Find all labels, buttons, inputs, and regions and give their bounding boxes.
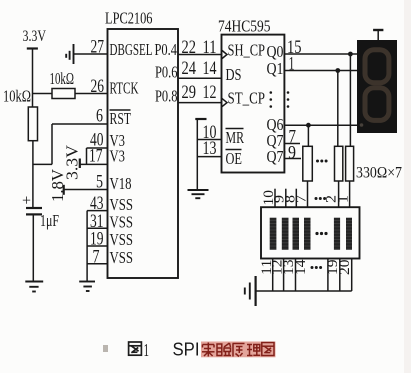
wire connector pin13 stub (295, 259, 297, 292)
power 1.8V bar rotated (pin5) (63, 185, 65, 195)
wire pin40 V3 (87, 147, 108, 149)
svg-text:7: 7 (293, 194, 309, 203)
connector hatched pin 1 (270, 218, 277, 250)
ellipsis dots inside 595 (270, 91, 290, 108)
display DS1 decimal point (360, 123, 364, 127)
wire pin17 V3 (80, 163, 108, 165)
svg-text:DBGSEL: DBGSEL (110, 40, 153, 59)
caption glyph 图 (black) (129, 342, 142, 355)
caption red glyph 原 (233, 344, 245, 357)
resistor R1 10k vertical (28, 107, 37, 141)
wire connector pin12 stub (283, 259, 285, 292)
svg-text:DS: DS (226, 65, 242, 84)
ellipsis bottom pin row (311, 266, 323, 269)
svg-text:7: 7 (93, 246, 100, 267)
wire display VCC stub (377, 30, 379, 40)
wire R2 left lead (33, 93, 52, 95)
svg-text:VSS: VSS (110, 230, 134, 249)
wire rail to capacitor (32, 141, 34, 207)
connector hatched pin 3 (293, 218, 300, 250)
svg-text:SPI: SPI (173, 340, 200, 360)
svg-text:SH_CP: SH_CP (228, 41, 266, 60)
ellipsis top pin row (315, 197, 327, 200)
svg-text:24: 24 (182, 58, 197, 79)
svg-text:VSS: VSS (110, 213, 134, 232)
wire pin10 MR (197, 139, 221, 141)
svg-text:3.3V: 3.3V (23, 28, 47, 45)
resistor R4 330ohm (335, 146, 343, 181)
caption red glyph 理 (247, 345, 260, 356)
wire Q7' pin9 stub (284, 158, 301, 160)
wire RST branch vertical (51, 124, 53, 164)
svg-text:V18: V18 (110, 174, 132, 193)
wire connector pin20 stub (339, 259, 341, 292)
resistor R3 330ohm (303, 146, 313, 181)
svg-text:Q7': Q7' (267, 147, 287, 166)
wire connector pin9 stub (285, 189, 287, 208)
capacitor C1 plate bottom (26, 213, 42, 215)
svg-text:14: 14 (293, 259, 309, 275)
svg-text:13: 13 (203, 138, 217, 159)
display DS1 digit 8 top loop (365, 50, 389, 83)
junction dot Q1 (335, 68, 340, 73)
wire 3.3V rail upper (32, 49, 34, 108)
wire pin7 VSS (87, 263, 107, 265)
svg-text:1: 1 (144, 340, 150, 360)
svg-text:9: 9 (288, 142, 296, 163)
svg-text:LPC2106: LPC2106 (105, 8, 153, 27)
svg-text:27: 27 (91, 36, 105, 57)
wire R5 to connector pin1 (349, 181, 351, 207)
svg-text:5: 5 (96, 172, 103, 193)
svg-text:VSS: VSS (110, 195, 134, 214)
svg-text:17: 17 (89, 145, 103, 166)
wire pin43 VSS (87, 210, 107, 212)
ground G3 VSS (79, 281, 95, 283)
wire pin19 VSS (87, 245, 107, 247)
connector J1 body (261, 207, 360, 258)
clock triangle ST_CP (222, 98, 228, 107)
wire R3 to connector pin7 (307, 181, 309, 207)
svg-text:1.8V: 1.8V (48, 168, 67, 202)
wire connector pin20b stub (351, 259, 353, 292)
svg-text:10kΩ: 10kΩ (50, 69, 75, 88)
ground G2 below C1 (25, 281, 43, 283)
capacitor C1 plate top (26, 207, 42, 209)
power +3.3V bar top (27, 47, 38, 49)
wire pin31 VSS (87, 227, 107, 229)
ellipsis between 330 resistors (316, 160, 328, 163)
ellipsis inside connector (315, 232, 327, 235)
svg-text:P0.6: P0.6 (155, 63, 178, 82)
wire Q6 to display (284, 124, 357, 126)
IC U2 74HC595 body (222, 35, 285, 173)
wire cap to ground (32, 215, 34, 281)
wire P0.6 pin24 to DS pin14 (178, 77, 222, 79)
ground G1 (rotated left, DBGSEL) (73, 44, 75, 64)
wire Q6 drop to R3 (307, 125, 309, 146)
svg-text:26: 26 (91, 76, 105, 97)
connector hatched pin 4 (304, 218, 311, 250)
svg-text:20: 20 (337, 260, 353, 276)
svg-text:1: 1 (289, 54, 295, 75)
wire connector pin10 stub (274, 189, 276, 208)
svg-text:10kΩ: 10kΩ (3, 87, 31, 106)
svg-text:22: 22 (182, 37, 197, 58)
junction dot Q0 (348, 52, 353, 57)
svg-text:V3: V3 (110, 146, 126, 165)
wire connector pin19 stub (327, 259, 329, 292)
svg-text:+: + (22, 193, 31, 210)
junction dot Q6 (306, 123, 311, 128)
caption red glyph 图 (262, 343, 274, 356)
wire Q1 pin1 to display (284, 70, 357, 72)
wire R4 to connector pin2 (338, 181, 340, 207)
resistor R2 10k horizontal (52, 89, 75, 99)
wire Q7 pin7 stub (284, 143, 300, 145)
wire bottom ground rail (256, 290, 352, 292)
svg-text:29: 29 (182, 82, 197, 103)
wire pin13 OE (197, 156, 221, 158)
wire V3 box left vertical (86, 148, 88, 164)
clock triangle SH_CP (222, 50, 228, 59)
wire Q0 drop to R5 (349, 54, 351, 146)
wire MR pullup vertical (196, 119, 198, 190)
display DS1 digit 8 bottom loop (365, 88, 389, 121)
caption red glyph 实 (202, 343, 215, 357)
wire RST branch horizontal (33, 163, 52, 165)
caption red glyph 验 (217, 343, 231, 356)
power 3.3V bar rotated (pin17) (79, 159, 81, 169)
wire P0.8 pin29 to ST_CP pin12 (178, 102, 222, 104)
wire pin6 RST (52, 123, 108, 125)
connector hatched pin 5 (334, 218, 340, 250)
wire P0.4 pin22 to SH_CP pin11 (178, 54, 222, 56)
svg-text:14: 14 (203, 58, 217, 79)
wire pin27 DBGSEL (74, 53, 108, 55)
caption stray mark (103, 345, 108, 352)
wire Q0 pin15 to display (284, 53, 357, 55)
svg-text:1: 1 (335, 195, 351, 203)
svg-text:ST_CP: ST_CP (228, 89, 266, 108)
svg-text:P0.8: P0.8 (155, 86, 178, 105)
ground G5 rotated left (bottom rail) (255, 276, 257, 306)
wire VSS ground bus (86, 211, 88, 282)
overline OE (226, 149, 242, 151)
wire connector pin8 stub (295, 189, 297, 208)
overline RST (110, 109, 131, 111)
ground G4 OE (188, 189, 209, 191)
svg-text:MR: MR (226, 128, 245, 147)
display DS1 body (357, 40, 397, 133)
svg-text:74HC595: 74HC595 (218, 16, 271, 35)
svg-text:VSS: VSS (110, 248, 134, 267)
svg-text:11: 11 (203, 37, 217, 58)
svg-text:OE: OE (226, 149, 243, 168)
caption red highlight block (201, 342, 276, 358)
svg-text:12: 12 (203, 82, 217, 103)
svg-text:1μF: 1μF (40, 211, 59, 230)
svg-text:RST: RST (110, 109, 132, 128)
connector hatched pin 2 (282, 218, 289, 250)
svg-text:330Ω×7: 330Ω×7 (356, 165, 402, 182)
resistor R5 330ohm (346, 146, 354, 181)
svg-text:P0.4: P0.4 (155, 40, 178, 59)
svg-text:RTCK: RTCK (110, 79, 139, 98)
wire Q1 drop to R4 (337, 71, 339, 147)
svg-text:Q1: Q1 (267, 59, 284, 78)
wire pin5 V18 (64, 189, 108, 191)
power VCC bar (MR pullup) (195, 118, 206, 120)
connector hatched pin 6 (346, 218, 352, 250)
power VCC bar (display) (373, 29, 383, 31)
wire connector pin11 stub (272, 259, 274, 292)
IC U1 LPC2106 body (108, 29, 179, 278)
svg-text:6: 6 (96, 106, 103, 127)
wire pin26 RTCK (75, 93, 108, 95)
overline MR (226, 128, 244, 130)
